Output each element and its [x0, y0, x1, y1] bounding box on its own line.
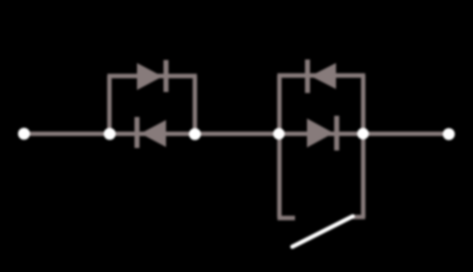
diode D1 (pair-1 top branch, pointing right): triangle [137, 63, 163, 90]
wire: pair-2 top branch [277, 73, 365, 77]
wire: main line, left terminal to pair-1 left junction [24, 132, 110, 136]
wire: pair-1 right vertical riser [193, 76, 197, 134]
wire: main line between pair 1 and pair 2 [195, 132, 279, 136]
wire: pair-1 left vertical riser [107, 76, 111, 134]
wire: main line through pair-1 bottom diode [110, 132, 195, 136]
diode D3 triangle [311, 63, 337, 89]
node: right terminal dot [443, 128, 455, 140]
diode D2 triangle [141, 120, 167, 147]
diode D1 cathode bar [164, 60, 169, 92]
diode D2 (pair-1 main line, pointing left): cathode bar [135, 117, 140, 148]
wire: pair-1 top branch [107, 74, 196, 78]
switch S1 blade (open, white) [292, 216, 353, 246]
node: pair-2 right junction dot [357, 128, 369, 140]
diode D4 cathode bar [334, 116, 339, 151]
node: left terminal dot [18, 128, 30, 140]
node: pair-2 left junction dot [273, 128, 285, 140]
switch S1 left contact stub [278, 216, 296, 220]
switch S1 right contact stub [353, 215, 366, 219]
wire: pair-2 right vertical (top branch down to switch) [361, 76, 365, 218]
diode D3 (pair-2 top branch, pointing left): cathode bar [305, 60, 310, 94]
wire: main line, pair-2 right junction to right terminal [363, 132, 449, 136]
node: pair-1 left junction dot [104, 128, 116, 140]
wire: pair-2 left vertical (top branch down to switch) [277, 76, 281, 219]
node: pair-1 right junction dot [189, 128, 201, 140]
wire: main line through pair-2 bottom diode [279, 132, 363, 136]
diode D4 (pair-2 main line, pointing right): triangle [307, 119, 334, 148]
